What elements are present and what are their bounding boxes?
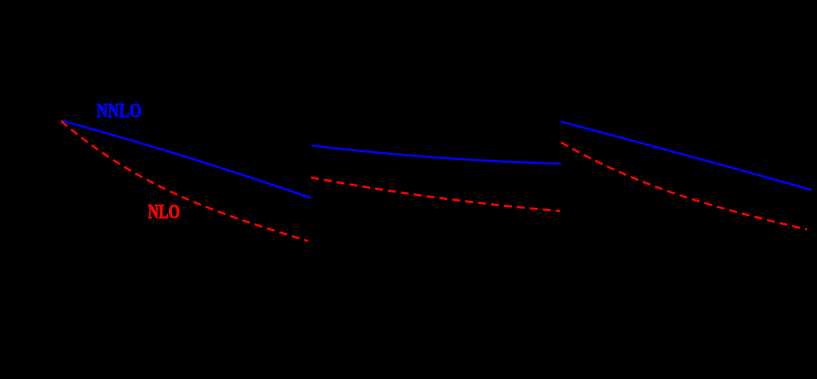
NNLO curve, middle panel (blue solid): [312, 146, 561, 164]
svg-text:NLO: NLO: [148, 201, 180, 223]
NLO curve, middle panel (red dashed): [311, 178, 560, 212]
NNLO curve, right panel (blue solid): [561, 122, 812, 190]
NLO curve, left panel (red dashed): [61, 121, 308, 241]
NNLO curve, left panel (blue solid): [61, 121, 311, 199]
svg-text:NNLO: NNLO: [97, 100, 142, 122]
NLO curve, right panel (red dashed): [561, 142, 807, 229]
